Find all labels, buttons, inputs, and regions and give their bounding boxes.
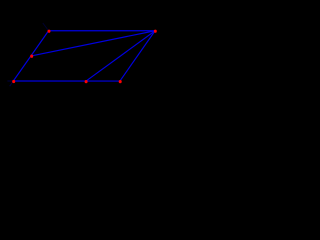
node A (12, 80, 15, 83)
wire segment AB (left edge of parallelogram, passes through point E) (13, 31, 48, 81)
wire faint stub extension of DA left of A (7, 80, 13, 82)
wire segment CD (right edge) (120, 31, 155, 81)
wire segment CF (cevian from C to F) (86, 31, 155, 81)
node E (30, 55, 33, 58)
node B (48, 30, 51, 33)
wire faint stub extension of AB below A (10, 81, 14, 86)
node F (85, 80, 88, 83)
wire segment DA (bottom edge, passes through point F) (13, 80, 120, 82)
node C (154, 30, 157, 33)
node D (119, 80, 122, 83)
wire faint stub extension up-left of B (43, 23, 49, 31)
wire segment BC (top edge) (49, 30, 156, 32)
wire segment CE (cevian from C to E) (31, 31, 155, 56)
